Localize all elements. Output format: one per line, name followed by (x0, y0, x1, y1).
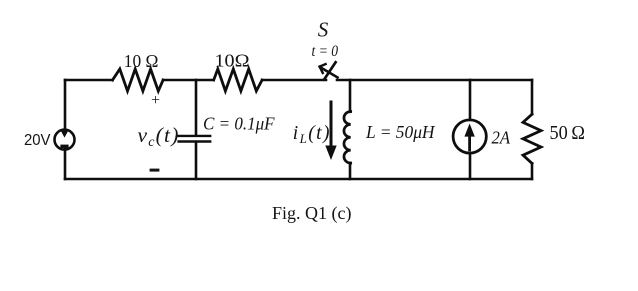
voltage source V1 plus mark (61, 131, 69, 138)
wire left vertical below source (64, 149, 67, 180)
switch S arrowhead barb lower (320, 67, 323, 73)
svg-text:10 Ω: 10 Ω (124, 51, 159, 71)
resistor R3 top lead (531, 80, 534, 114)
inductor L1 top lead (349, 80, 352, 112)
current source I1 arrow shaft (468, 131, 471, 150)
inductor L1 coil (344, 112, 351, 164)
capacitor C1 top plate (179, 135, 211, 137)
svg-text:S: S (318, 18, 329, 42)
wire top rail left segment (65, 79, 113, 82)
current arrow iL head (325, 146, 336, 161)
svg-text:iL(t): iL(t) (293, 123, 331, 146)
svg-text:C = 0.1μF: C = 0.1μF (203, 114, 275, 134)
wire left vertical above source (64, 80, 67, 131)
current source I1 bottom lead (469, 155, 472, 180)
resistor R3 bottom lead (531, 163, 534, 179)
svg-text:L = 50μH: L = 50μH (365, 122, 435, 142)
capacitor C1 top lead (195, 80, 198, 135)
switch S arrowhead barb upper (320, 64, 326, 67)
current source I1 circle (453, 120, 486, 153)
resistor R2 zigzag (214, 69, 262, 91)
svg-text:20V: 20V (24, 132, 51, 149)
wire top rail between R1 and R2 (163, 79, 214, 82)
label minus of vc (150, 169, 160, 172)
resistor R1 zigzag (113, 69, 164, 91)
capacitor C1 bottom lead (195, 143, 198, 179)
switch S blade (325, 62, 336, 78)
wire top rail R2 to switch left contact (262, 79, 326, 82)
switch S arrow shaft (321, 68, 337, 78)
svg-text:vc(t): vc(t) (138, 123, 180, 150)
svg-text:2A: 2A (492, 127, 511, 147)
svg-text:10Ω: 10Ω (215, 51, 250, 71)
inductor L1 bottom lead (349, 163, 352, 179)
current source I1 top lead (469, 80, 472, 119)
svg-text:+: + (151, 92, 160, 109)
current source I1 arrowhead (464, 124, 474, 137)
svg-text:t = 0: t = 0 (312, 43, 339, 60)
wire bottom rail (65, 178, 532, 181)
voltage source V1 minus mark (60, 145, 68, 148)
svg-text:Fig. Q1 (c): Fig. Q1 (c) (272, 203, 352, 224)
voltage source V1 circle (55, 130, 75, 150)
current arrow iL shaft (330, 102, 333, 147)
wire top rail switch right to top-right corner (337, 79, 532, 82)
resistor R3 zigzag (523, 114, 541, 163)
capacitor C1 bottom plate (179, 140, 211, 142)
svg-text:50 Ω: 50 Ω (550, 122, 586, 144)
